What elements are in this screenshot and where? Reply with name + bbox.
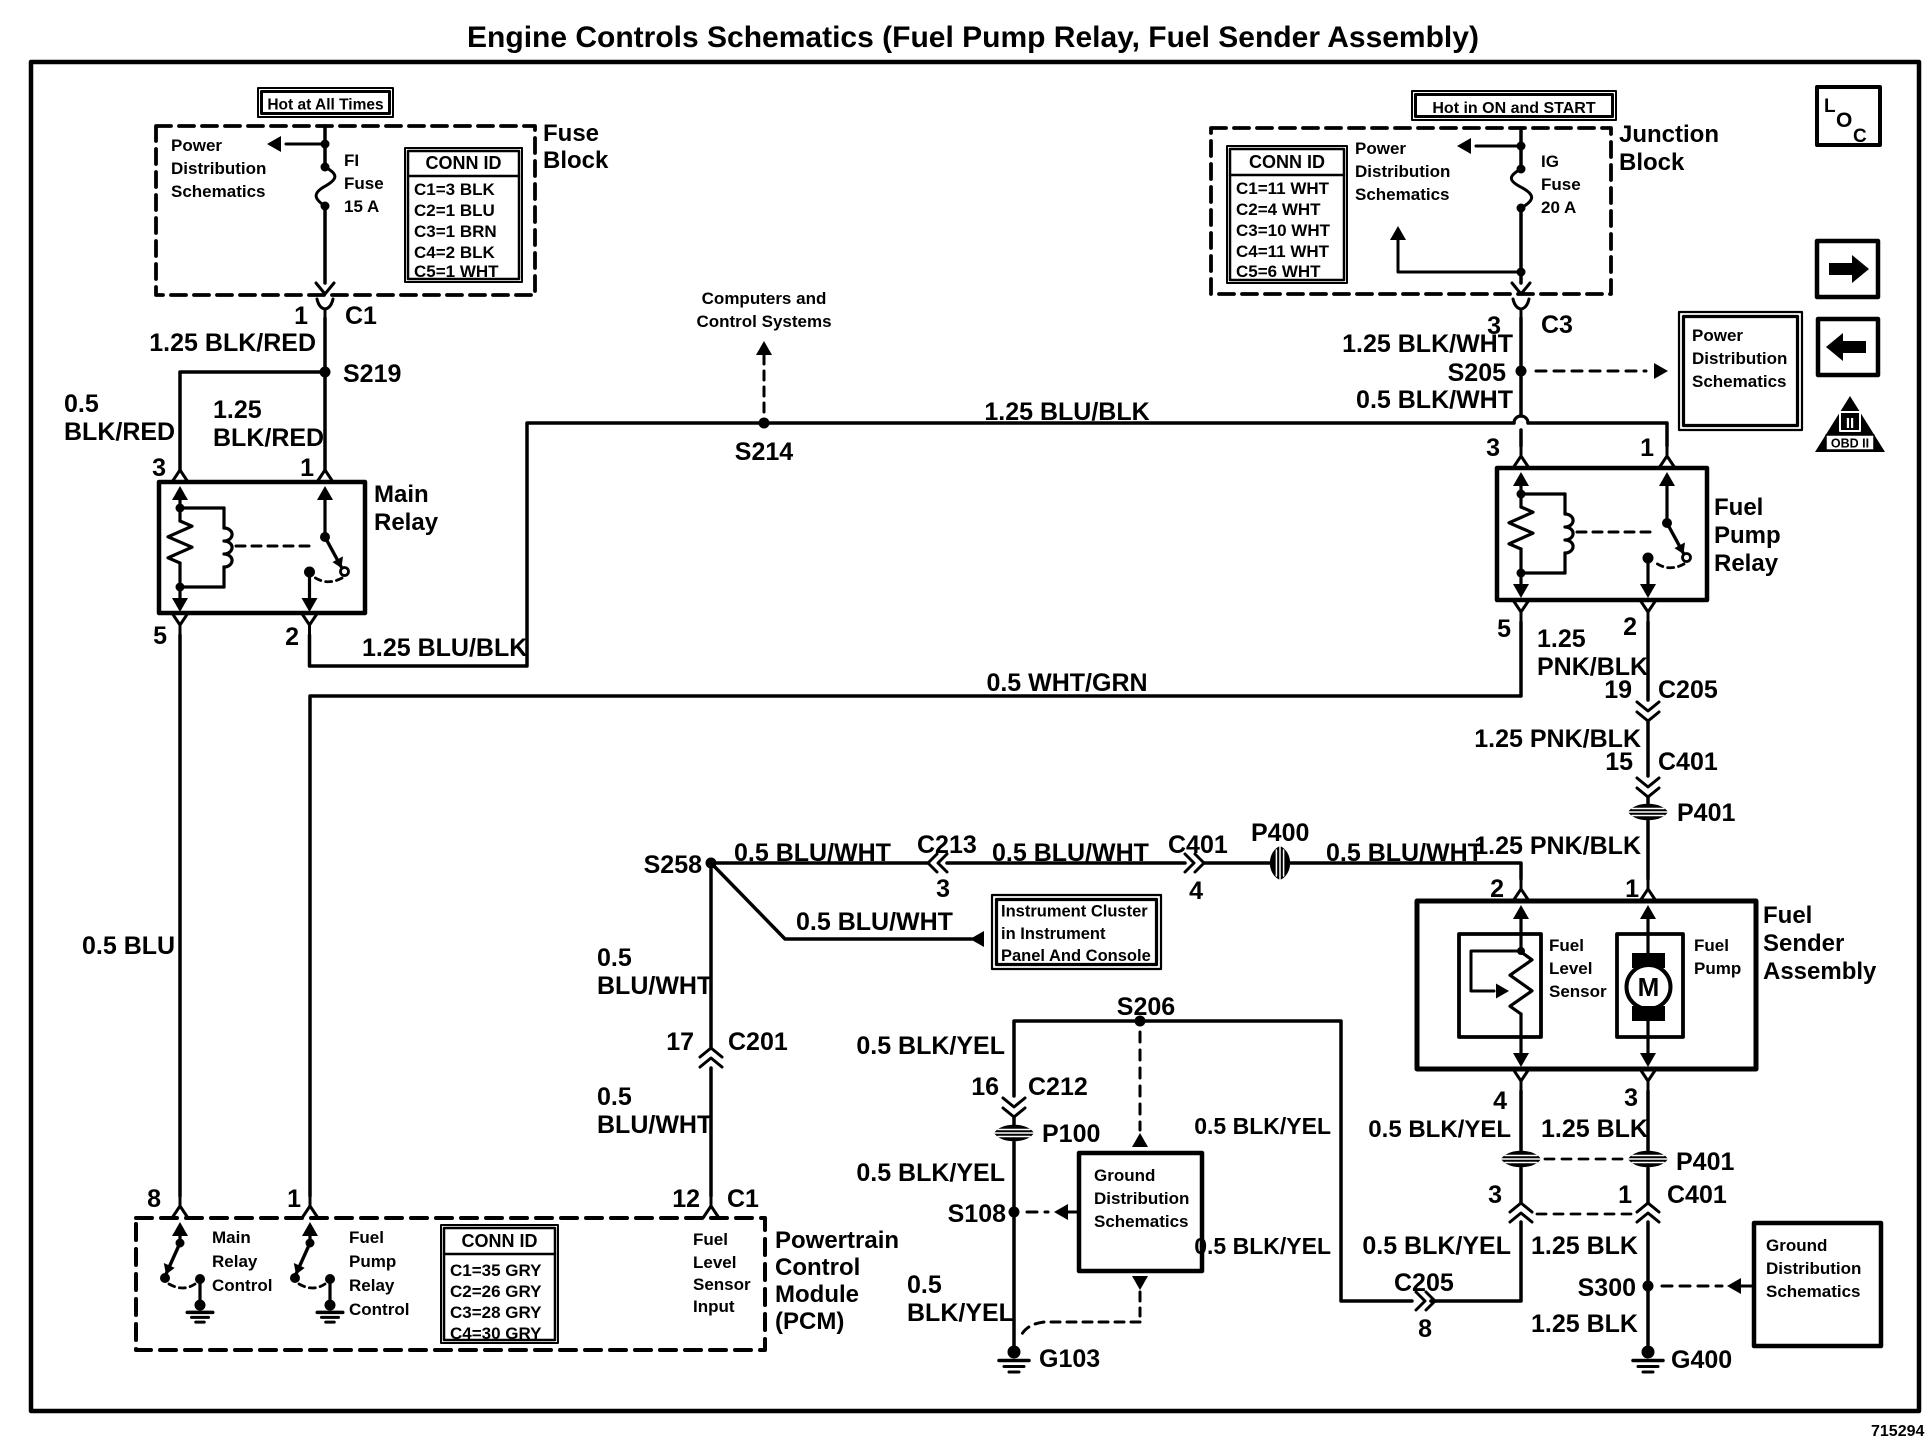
grommet P401 (fuel pump feed): [1646, 797, 1650, 803]
connector table CONN ID (fuse block): [405, 148, 522, 282]
box Power Distribution Schematics: [1679, 312, 1802, 430]
svg-text:1.25 PNK/BLK: 1.25 PNK/BLK: [1474, 832, 1641, 860]
svg-text:C3=1 BRN: C3=1 BRN: [414, 222, 497, 241]
svg-text:P401: P401: [1677, 799, 1735, 827]
svg-text:15 A: 15 A: [344, 197, 379, 216]
connector C205 pin 19: [1637, 702, 1659, 711]
svg-text:C1: C1: [345, 302, 377, 330]
fuse IG 20 A: [1519, 128, 1523, 169]
wire: S219 left branch (0.5 BLK/RED) to Main Relay pin 3: [180, 372, 325, 470]
svg-text:Engine Controls Schematics (Fu: Engine Controls Schematics (Fuel Pump Re…: [467, 21, 1479, 54]
wire: Fuel Sender pin 4 to P401 (0.5 BLK/YEL): [1519, 1091, 1523, 1150]
switch: Fuel Pump Relay Control driver: [302, 1222, 318, 1236]
svg-text:0.5 BLU/WHT: 0.5 BLU/WHT: [992, 839, 1149, 867]
reference arrow: Ground Distribution box to S206: [1139, 1032, 1142, 1130]
svg-text:1: 1: [300, 454, 314, 482]
wire: FI fuse to connector C1: [323, 206, 327, 283]
wire label 1.25 PNK/BLK (pin 2): [1646, 622, 1650, 700]
connector C201 pin 17: [700, 1048, 722, 1057]
svg-text:C1=3 BLK: C1=3 BLK: [414, 180, 495, 199]
svg-text:M: M: [1638, 972, 1660, 1002]
svg-text:BLK/RED: BLK/RED: [64, 418, 175, 446]
svg-text:O: O: [1836, 109, 1852, 132]
svg-text:Schematics: Schematics: [1094, 1212, 1189, 1231]
svg-text:C205: C205: [1394, 1269, 1454, 1297]
svg-text:1.25 BLU/BLK: 1.25 BLU/BLK: [984, 398, 1149, 426]
svg-text:3: 3: [936, 875, 950, 903]
svg-text:C4=2 BLK: C4=2 BLK: [414, 243, 495, 262]
wire: Fuel Pump Relay pin 5 to PCM pin 1 (0.5 WHT/GRN): [310, 622, 1521, 1196]
svg-text:C5=6 WHT: C5=6 WHT: [1236, 262, 1321, 281]
node S214: [759, 418, 770, 429]
svg-text:0.5 BLK/WHT: 0.5 BLK/WHT: [1356, 386, 1513, 414]
svg-text:in Instrument: in Instrument: [1001, 925, 1106, 943]
svg-text:Fuse: Fuse: [1541, 175, 1581, 194]
svg-text:II: II: [1846, 415, 1854, 432]
svg-text:C401: C401: [1658, 748, 1718, 776]
svg-text:C1: C1: [727, 1185, 759, 1213]
svg-text:Block: Block: [1619, 149, 1685, 176]
svg-text:Relay: Relay: [349, 1276, 395, 1295]
wire: C401-3 down to C205 junction (0.5 BLK/YEL): [1431, 1222, 1521, 1301]
node S205: [1516, 366, 1527, 377]
junction block outline (dashed): [1211, 128, 1611, 294]
svg-text:1.25 BLK: 1.25 BLK: [1541, 1115, 1648, 1143]
svg-text:S108: S108: [948, 1200, 1006, 1228]
svg-text:1.25 BLK: 1.25 BLK: [1531, 1310, 1638, 1338]
svg-text:0.5 BLK/YEL: 0.5 BLK/YEL: [1194, 1233, 1331, 1259]
connector C213 pin 3: [928, 854, 937, 872]
node S108: [1009, 1207, 1020, 1218]
PCM outline (dashed): [136, 1218, 765, 1350]
svg-text:Panel And Console: Panel And Console: [1001, 947, 1151, 965]
svg-text:C3=28 GRY: C3=28 GRY: [450, 1303, 542, 1322]
svg-text:3: 3: [1624, 1084, 1638, 1112]
svg-text:Level: Level: [693, 1253, 736, 1272]
svg-text:C1=35 GRY: C1=35 GRY: [450, 1261, 542, 1280]
svg-text:17: 17: [666, 1028, 694, 1056]
relay: Main Relay box: [159, 482, 365, 613]
connector C1 pin 1: [317, 299, 333, 318]
PCM pin 8 connector: [179, 1196, 182, 1206]
svg-text:Schematics: Schematics: [1692, 372, 1787, 391]
svg-text:1: 1: [287, 1185, 301, 1213]
svg-text:19: 19: [1604, 676, 1632, 704]
connector table CONN ID (junction block): [1227, 146, 1347, 283]
svg-text:12: 12: [672, 1185, 700, 1213]
svg-text:0.5 BLK/YEL: 0.5 BLK/YEL: [1368, 1116, 1511, 1143]
icon LOC: [1817, 87, 1880, 145]
node S219: [320, 367, 331, 378]
svg-text:15: 15: [1605, 748, 1633, 776]
svg-text:Schematics: Schematics: [171, 182, 266, 201]
svg-text:C212: C212: [1028, 1073, 1088, 1101]
wire: IG fuse to connector C3: [1519, 208, 1523, 283]
svg-text:5: 5: [1497, 615, 1511, 643]
svg-text:C5=1 WHT: C5=1 WHT: [414, 262, 499, 281]
svg-text:(PCM): (PCM): [775, 1308, 844, 1335]
svg-text:Fuse: Fuse: [344, 174, 384, 193]
node S258: [706, 858, 717, 869]
node S300: [1643, 1281, 1654, 1292]
svg-text:4: 4: [1493, 1087, 1507, 1115]
Main Relay switch: [236, 545, 314, 548]
fuel level sensor (variable resistor): [1513, 905, 1529, 919]
svg-text:C401: C401: [1667, 1181, 1727, 1209]
wire: Main Relay pin 5 to PCM pin 8 (0.5 BLU): [178, 635, 182, 1196]
svg-text:Input: Input: [693, 1297, 735, 1316]
Fuel Sender pin 4 connector: [1513, 1069, 1529, 1081]
connector C3 pin 3: [1513, 299, 1529, 318]
wire: P401 to Fuel Sender pin 1 (1.25 PNK/BLK): [1646, 821, 1650, 879]
svg-text:C2=26 GRY: C2=26 GRY: [450, 1282, 542, 1301]
Fuel Sender pin 2 connector: [1520, 879, 1523, 889]
wire: S258 down to C201 (0.5 BLU/WHT): [709, 869, 713, 1048]
Main Relay pin 5 connector: [172, 613, 188, 625]
svg-text:OBD II: OBD II: [1831, 437, 1869, 451]
svg-text:C201: C201: [728, 1028, 788, 1056]
svg-text:C401: C401: [1168, 831, 1228, 859]
label "Hot in ON and START": [1412, 91, 1616, 120]
reference arrow: S108 to Ground Distribution Schematics: [1027, 1211, 1048, 1214]
svg-text:Distribution: Distribution: [1094, 1189, 1189, 1208]
wire: C3 to S205 (1.25 BLK/WHT): [1519, 318, 1523, 371]
wire: S258 to C213 (0.5 BLU/WHT): [711, 861, 928, 865]
wire: C201 to PCM pin 12 (0.5 BLU/WHT): [709, 1068, 713, 1196]
svg-text:Fuel: Fuel: [693, 1230, 728, 1249]
branch arrow inside junction block: [1398, 240, 1521, 272]
svg-text:5: 5: [153, 622, 167, 650]
svg-text:C205: C205: [1658, 676, 1718, 704]
svg-text:0.5 BLK/YEL: 0.5 BLK/YEL: [1362, 1232, 1511, 1260]
svg-text:BLK/RED: BLK/RED: [213, 424, 324, 452]
svg-text:Distribution: Distribution: [1355, 162, 1450, 181]
relay: Fuel Pump Relay box: [1497, 468, 1707, 600]
svg-text:BLK/YEL: BLK/YEL: [907, 1299, 1014, 1327]
svg-text:G400: G400: [1671, 1346, 1732, 1374]
svg-text:2: 2: [1623, 613, 1637, 641]
svg-text:3: 3: [1488, 1181, 1502, 1209]
wire: Fuel Sender pin 3 to P401 (1.25 BLK): [1646, 1091, 1650, 1150]
fuse block outline (dashed): [156, 126, 535, 295]
component box: Fuel Sender Assembly: [1417, 901, 1756, 1069]
Fuel Sender pin 3 connector: [1640, 1069, 1656, 1081]
connector table CONN ID (PCM): [441, 1225, 558, 1343]
Fuel Pump Relay coil and resistor: [1513, 472, 1529, 486]
Main Relay coil and resistor: [172, 486, 188, 500]
svg-text:Schematics: Schematics: [1355, 185, 1450, 204]
svg-text:Sender: Sender: [1763, 930, 1844, 957]
svg-text:Assembly: Assembly: [1763, 958, 1877, 985]
svg-text:BLU/WHT: BLU/WHT: [597, 1111, 712, 1139]
svg-text:Distribution: Distribution: [171, 159, 266, 178]
grommet P100: [1012, 1117, 1016, 1125]
svg-text:CONN ID: CONN ID: [1249, 152, 1325, 172]
svg-text:0.5 BLU/WHT: 0.5 BLU/WHT: [1326, 839, 1483, 867]
svg-text:FI: FI: [344, 151, 359, 170]
svg-text:Pump: Pump: [1694, 959, 1741, 978]
svg-text:0.5 BLK/YEL: 0.5 BLK/YEL: [1194, 1113, 1331, 1139]
svg-text:4: 4: [1189, 877, 1203, 905]
svg-text:Relay: Relay: [374, 509, 439, 536]
svg-text:Distribution: Distribution: [1692, 349, 1787, 368]
wire: P400 to Fuel Sender pin 2 (0.5 BLU/WHT): [1289, 863, 1521, 879]
wire: S206 branch to C205 pin 8: [1416, 1292, 1425, 1310]
wire: Main Relay pin 2 to Fuel Pump Relay pin 1 (1.25 BLU/BLK): [310, 423, 1515, 666]
svg-text:S300: S300: [1578, 1274, 1636, 1302]
svg-text:0.5 BLK/YEL: 0.5 BLK/YEL: [856, 1159, 1005, 1187]
svg-text:G103: G103: [1039, 1345, 1100, 1373]
box Ground Distribution Schematics (middle): [1079, 1153, 1202, 1271]
grommet P401 (sender grounds): [1501, 1151, 1541, 1168]
svg-text:1: 1: [1640, 434, 1654, 462]
svg-text:Sensor: Sensor: [1549, 982, 1607, 1001]
wire: P100 to S108 (0.5 BLK/YEL): [1012, 1142, 1016, 1212]
svg-text:0.5: 0.5: [64, 390, 99, 418]
svg-text:Pump: Pump: [1714, 522, 1781, 549]
svg-text:1.25 BLK: 1.25 BLK: [1531, 1232, 1638, 1260]
svg-text:715294: 715294: [1871, 1423, 1924, 1440]
Fuel Sender pin 1 connector: [1647, 879, 1650, 889]
svg-text:1.25 BLK/WHT: 1.25 BLK/WHT: [1342, 330, 1513, 358]
fuse FI 15 A: [323, 126, 327, 167]
connector C212 pin 16: [1003, 1098, 1025, 1107]
svg-text:S258: S258: [644, 851, 702, 879]
PCM pin 12 connector C1: [710, 1196, 713, 1206]
svg-text:Sensor: Sensor: [693, 1275, 751, 1294]
svg-text:P100: P100: [1042, 1120, 1100, 1148]
svg-text:Relay: Relay: [212, 1252, 258, 1271]
svg-text:Schematics: Schematics: [1766, 1282, 1861, 1301]
svg-text:0.5 WHT/GRN: 0.5 WHT/GRN: [986, 669, 1147, 697]
svg-text:P401: P401: [1676, 1148, 1734, 1176]
reference arrow: Computers and Control Systems: [763, 355, 766, 417]
svg-text:C3: C3: [1541, 311, 1573, 339]
box Instrument Cluster in Instrument Panel And Console: [992, 895, 1161, 969]
svg-text:BLU/WHT: BLU/WHT: [597, 972, 712, 1000]
svg-text:16: 16: [971, 1073, 999, 1101]
Fuel Pump Relay switch: [1577, 531, 1655, 534]
svg-text:C3=10 WHT: C3=10 WHT: [1236, 221, 1331, 240]
fuel pump motor: [1640, 905, 1656, 919]
svg-text:S214: S214: [735, 438, 793, 466]
icon OBD II triangle: [1815, 396, 1885, 452]
svg-text:C1=11 WHT: C1=11 WHT: [1236, 179, 1330, 198]
svg-text:Power: Power: [1692, 326, 1743, 345]
switch: Main Relay Control driver: [172, 1222, 188, 1236]
svg-text:C2=1 BLU: C2=1 BLU: [414, 201, 495, 220]
svg-text:8: 8: [147, 1185, 161, 1213]
svg-text:Distribution: Distribution: [1766, 1259, 1861, 1278]
svg-text:Pump: Pump: [349, 1252, 396, 1271]
svg-text:Instrument Cluster: Instrument Cluster: [1001, 903, 1148, 921]
Main Relay pin 1 connector: [324, 460, 327, 470]
svg-text:Power: Power: [1355, 139, 1406, 158]
node S206: [1135, 1016, 1146, 1027]
svg-text:0.5: 0.5: [597, 944, 632, 972]
svg-text:Main: Main: [212, 1228, 251, 1247]
svg-text:S219: S219: [343, 360, 401, 388]
icon arrow left: [1818, 319, 1878, 375]
Main Relay pin 2 connector: [302, 613, 318, 625]
svg-text:0.5 BLU: 0.5 BLU: [82, 932, 175, 960]
svg-text:Control Systems: Control Systems: [696, 312, 831, 331]
svg-text:Fuel: Fuel: [1714, 494, 1763, 521]
svg-text:S205: S205: [1448, 359, 1506, 387]
svg-text:1.25: 1.25: [213, 396, 262, 424]
connector C401 pins 3 and 1: [1519, 1168, 1523, 1203]
svg-text:3: 3: [152, 454, 166, 482]
box Ground Distribution Schematics (right): [1754, 1223, 1881, 1346]
svg-text:C4=30 GRY: C4=30 GRY: [450, 1324, 542, 1343]
svg-text:Control: Control: [349, 1300, 409, 1319]
Fuel Pump Relay pin 2 connector: [1640, 600, 1656, 612]
svg-text:Relay: Relay: [1714, 550, 1779, 577]
ground G103: [1008, 1346, 1021, 1359]
Main Relay pin 3 connector: [179, 460, 182, 470]
svg-text:1: 1: [1618, 1181, 1632, 1209]
wire: S258 spur to Instrument Cluster (0.5 BLU/WHT): [711, 863, 972, 939]
svg-text:Fuel: Fuel: [349, 1228, 384, 1247]
wire: S205 to Fuel Pump Relay pin 3 (0.5 BLK/WHT) with crossover hop: [1519, 371, 1523, 416]
svg-text:Fuel: Fuel: [1549, 936, 1584, 955]
ground G400: [1642, 1346, 1655, 1359]
svg-text:Level: Level: [1549, 959, 1592, 978]
wire: C1 to S219 (1.25 BLK/RED): [323, 318, 327, 372]
reference arrow: S205 to Power Distribution Schematics: [1536, 370, 1646, 373]
svg-text:Hot at All Times: Hot at All Times: [267, 97, 383, 114]
wire: S219 to Main Relay pin 1 (1.25 BLK/RED): [323, 372, 327, 470]
svg-text:P400: P400: [1251, 819, 1309, 847]
svg-text:Computers and: Computers and: [702, 289, 827, 308]
svg-text:8: 8: [1418, 1315, 1432, 1343]
wire: S108 to G103 (0.5 BLK/YEL): [1012, 1212, 1016, 1346]
svg-text:C2=4 WHT: C2=4 WHT: [1236, 200, 1321, 219]
svg-text:1.25 BLU/BLK: 1.25 BLU/BLK: [362, 634, 527, 662]
connector C401 pin 4: [1185, 854, 1194, 872]
svg-text:C: C: [1853, 126, 1867, 147]
svg-text:Fuse: Fuse: [543, 120, 599, 147]
svg-text:C213: C213: [917, 831, 977, 859]
wire: S206 horizontal run (0.5 BLK/YEL): [1014, 1021, 1412, 1301]
svg-text:Block: Block: [543, 147, 609, 174]
svg-text:2: 2: [285, 623, 299, 651]
grommet P400: [1204, 861, 1271, 865]
svg-text:Powertrain: Powertrain: [775, 1227, 899, 1254]
svg-text:0.5: 0.5: [597, 1083, 632, 1111]
svg-text:Fuel: Fuel: [1763, 902, 1812, 929]
svg-text:20 A: 20 A: [1541, 198, 1576, 217]
svg-text:CONN ID: CONN ID: [426, 153, 502, 173]
reference arrow: Ground Distribution box to G103 wire: [1132, 1276, 1148, 1290]
wire 1.25 PNK/BLK between C205 and C401: [1646, 721, 1650, 776]
svg-text:1.25: 1.25: [1537, 625, 1586, 653]
svg-text:Power: Power: [171, 136, 222, 155]
svg-text:L: L: [1824, 96, 1836, 117]
svg-text:Junction: Junction: [1619, 121, 1719, 148]
svg-text:C4=11 WHT: C4=11 WHT: [1236, 242, 1330, 261]
svg-text:1: 1: [294, 302, 308, 330]
svg-text:CONN ID: CONN ID: [462, 1231, 538, 1251]
svg-text:0.5 BLU/WHT: 0.5 BLU/WHT: [734, 839, 891, 867]
svg-text:3: 3: [1486, 434, 1500, 462]
wire: C401-1 to S300 (1.25 BLK): [1646, 1222, 1650, 1286]
Fuel Pump Relay pin 3 connector: [1520, 446, 1523, 456]
Fuel Pump Relay pin 1 connector: [1666, 446, 1669, 456]
connector C401 pin 15: [1637, 778, 1659, 787]
svg-text:Main: Main: [374, 481, 429, 508]
svg-text:IG: IG: [1541, 152, 1559, 171]
PCM pin 1 connector: [309, 1196, 312, 1206]
svg-text:Control: Control: [212, 1276, 272, 1295]
svg-text:0.5: 0.5: [907, 1271, 942, 1299]
svg-text:0.5 BLK/YEL: 0.5 BLK/YEL: [856, 1032, 1005, 1060]
svg-text:Ground: Ground: [1094, 1166, 1155, 1185]
svg-text:Hot in ON and START: Hot in ON and START: [1432, 100, 1595, 117]
wire: S300 to G400 (1.25 BLK): [1646, 1286, 1650, 1346]
icon arrow right: [1817, 241, 1878, 297]
svg-text:1.25 BLK/RED: 1.25 BLK/RED: [149, 329, 316, 357]
svg-text:Ground: Ground: [1766, 1236, 1827, 1255]
Fuel Pump Relay pin 5 connector: [1513, 600, 1529, 612]
svg-text:0.5 BLU/WHT: 0.5 BLU/WHT: [796, 908, 953, 936]
svg-text:Fuel: Fuel: [1694, 936, 1729, 955]
svg-text:S206: S206: [1117, 993, 1175, 1021]
reference arrow: S300 to Ground Distribution Schematics: [1662, 1285, 1722, 1288]
wire: C213 to C401 (0.5 BLU/WHT): [947, 861, 1185, 865]
label "Hot at All Times": [258, 88, 393, 117]
svg-text:Control: Control: [775, 1254, 860, 1281]
svg-text:Module: Module: [775, 1281, 859, 1308]
